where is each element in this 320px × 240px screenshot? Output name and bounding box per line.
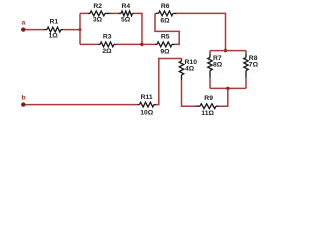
resistor R4	[121, 11, 133, 16]
wire R4 to box1 right edge	[134, 12, 143, 14]
svg-text:6Ω: 6Ω	[160, 18, 170, 25]
node a terminal	[21, 27, 25, 31]
svg-text:R5: R5	[161, 34, 170, 41]
svg-text:10Ω: 10Ω	[140, 110, 154, 117]
svg-text:b: b	[22, 95, 26, 102]
resistor R10	[181, 60, 183, 61]
svg-text:R6: R6	[161, 3, 170, 10]
node b terminal	[21, 102, 25, 106]
svg-text:R2: R2	[93, 3, 102, 10]
wire b to R11	[26, 104, 138, 106]
svg-text:R4: R4	[122, 3, 131, 10]
wire box3 top rail	[210, 50, 246, 52]
wire a to R1	[26, 29, 46, 31]
wire R2 to R4	[111, 12, 120, 14]
svg-text:9Ω: 9Ω	[160, 49, 170, 56]
wire R9 to R10 bottom	[182, 80, 197, 106]
resistor R2	[90, 11, 105, 16]
svg-text:R11: R11	[141, 94, 153, 101]
svg-text:4Ω: 4Ω	[185, 66, 195, 73]
junction node box3 top	[224, 49, 227, 52]
wire R5 to R6 connector	[155, 13, 179, 44]
wire box1 top-left to R2	[80, 12, 89, 14]
wire box1 right edge	[141, 13, 143, 45]
svg-text:R1: R1	[50, 19, 59, 26]
svg-text:a: a	[22, 20, 26, 27]
resistor R3	[100, 42, 114, 47]
svg-text:R9: R9	[204, 95, 213, 102]
wire box3 bottom rail	[210, 87, 246, 89]
svg-text:R3: R3	[103, 33, 112, 40]
junction node on bottom rail	[226, 87, 229, 90]
resistor R11	[140, 102, 155, 107]
svg-text:7Ω: 7Ω	[249, 62, 259, 69]
wire R6 to box3 top	[177, 13, 226, 50]
wire box1 bottom-left to R3	[80, 43, 98, 45]
svg-text:3Ω: 3Ω	[93, 17, 103, 24]
resistor R9	[200, 104, 216, 109]
wire box1 left edge	[79, 13, 81, 44]
resistor R8	[245, 51, 247, 54]
resistor R5	[157, 42, 172, 47]
junction node box1 left	[79, 28, 82, 31]
svg-text:8Ω: 8Ω	[213, 62, 223, 69]
resistor R6	[159, 11, 174, 16]
svg-text:11Ω: 11Ω	[201, 110, 214, 117]
wire riser to R9	[218, 88, 228, 106]
wire junction to R5	[142, 43, 155, 45]
svg-text:5Ω: 5Ω	[121, 17, 131, 24]
junction node after box1	[140, 43, 143, 46]
wire R10 top to R11	[156, 59, 182, 105]
wire R3 to junction	[116, 43, 143, 45]
resistor R7	[209, 51, 211, 54]
resistor R1	[47, 27, 61, 32]
wire R1 to box1 left edge	[63, 29, 80, 31]
svg-text:1Ω: 1Ω	[49, 33, 59, 40]
svg-text:2Ω: 2Ω	[102, 48, 112, 55]
